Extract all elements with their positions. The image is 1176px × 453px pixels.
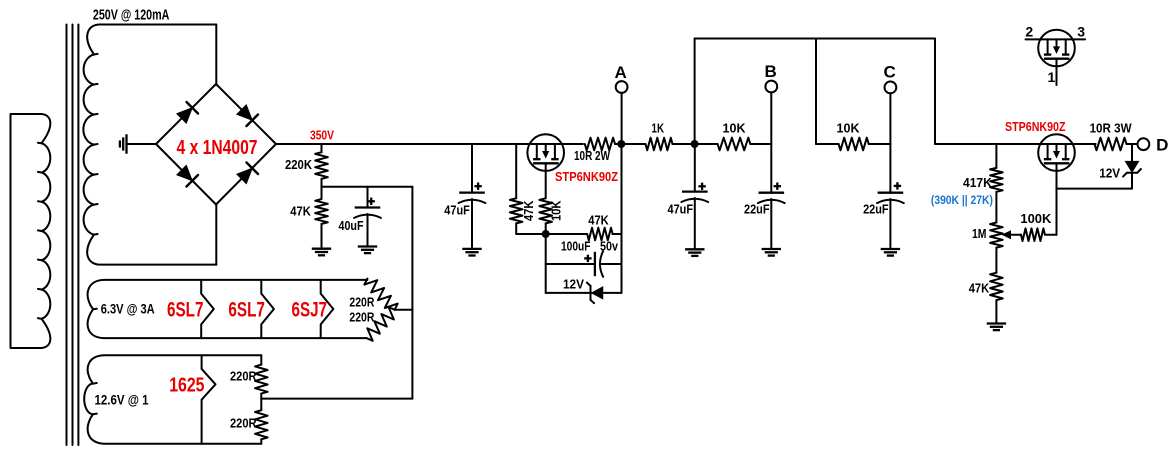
ground (input 47uF) <box>462 248 481 250</box>
terminal B <box>765 81 777 93</box>
resistor 220R lower (6.3V humdinger) <box>367 307 395 341</box>
transformer T1 core <box>66 25 68 446</box>
svg-text:417K: 417K <box>963 176 992 190</box>
resistor 10K (gate) <box>545 163 547 198</box>
wiper arrow <box>1003 231 1011 238</box>
capacitor 100uF 50v <box>594 252 596 276</box>
wire 12.6V center tap <box>261 398 412 400</box>
terminal A <box>616 81 628 93</box>
resistor 1K <box>646 138 673 151</box>
wire 10K to B <box>750 143 771 145</box>
svg-text:22uF: 22uF <box>863 203 889 217</box>
svg-text:220K: 220K <box>285 158 312 172</box>
svg-text:(390K || 27K): (390K || 27K) <box>931 193 993 207</box>
svg-text:6SL7: 6SL7 <box>167 298 204 321</box>
diode D2 (bridge top-right) <box>237 105 252 120</box>
ground (right divider) <box>987 322 1006 324</box>
svg-text:220R: 220R <box>230 369 257 383</box>
svg-text:1: 1 <box>1048 69 1056 85</box>
transformer T1 secondary 12.6V winding bus <box>84 355 261 444</box>
wire 10K to C <box>869 143 891 145</box>
resistor 10K (B feed) <box>718 138 751 151</box>
svg-text:220R: 220R <box>349 296 374 310</box>
svg-text:6SJ7: 6SJ7 <box>292 298 328 321</box>
svg-text:12V: 12V <box>1099 167 1121 181</box>
junction dot node after 1K <box>691 140 699 148</box>
diode D1 (bridge top-left) <box>177 108 192 123</box>
svg-text:C: C <box>883 63 895 82</box>
transformer T1 secondary 250V winding <box>83 25 216 265</box>
wire 350V rail <box>276 143 583 145</box>
tube 6SL7 #1 divider <box>201 280 214 338</box>
svg-text:D: D <box>1156 136 1168 155</box>
svg-text:10K: 10K <box>723 122 746 136</box>
svg-text:10K: 10K <box>550 201 564 222</box>
resistor 10R 3W <box>1095 138 1127 151</box>
tube 1625 divider <box>202 355 216 444</box>
wire 1K to node <box>673 143 718 145</box>
zener diode D6 12V (gate protection) <box>1131 144 1133 161</box>
resistor 47K (divider) <box>315 199 328 224</box>
diode D4 (bridge bottom-right) <box>237 168 252 183</box>
wire gate-zener branch <box>1057 188 1133 190</box>
svg-text:B: B <box>765 62 777 81</box>
svg-text:47uF: 47uF <box>444 203 470 217</box>
svg-text:47K: 47K <box>290 205 311 219</box>
resistor 220R lower (12.6V) <box>255 410 268 439</box>
wire gate network bottom <box>516 233 587 235</box>
svg-text:250V @ 120mA: 250V @ 120mA <box>93 8 170 24</box>
wire secondary top to bridge AC+ <box>215 25 217 86</box>
capacitor 47uF (input) <box>471 144 473 193</box>
svg-text:100K: 100K <box>1020 212 1051 226</box>
transistor Q1 STP6NK90Z pass MOSFET <box>527 134 564 171</box>
wire gate node down <box>545 234 547 293</box>
svg-text:220R: 220R <box>230 416 257 430</box>
wire node up to top rail <box>694 39 696 145</box>
svg-text:STP6NK90Z: STP6NK90Z <box>555 170 618 184</box>
svg-text:12V: 12V <box>563 277 585 291</box>
svg-text:1625: 1625 <box>169 374 204 396</box>
wire secondary bottom to bridge AC- <box>215 204 217 265</box>
svg-text:220R: 220R <box>349 311 374 325</box>
zener diode D5 12V (gate reference) <box>592 287 603 299</box>
terminal D <box>1138 138 1150 150</box>
resistor 10K (C feed) <box>839 138 869 151</box>
svg-text:10R 2W: 10R 2W <box>574 149 610 163</box>
junction dot gate node <box>542 230 550 238</box>
wire C branch drop <box>815 39 817 145</box>
svg-text:STP6NK90Z: STP6NK90Z <box>1005 120 1066 134</box>
diode D3 (bridge bottom-left) <box>177 165 192 180</box>
svg-text:6SL7: 6SL7 <box>228 298 265 321</box>
wire divider node <box>322 186 413 188</box>
wire zener row <box>546 292 585 294</box>
svg-text:350V: 350V <box>310 127 334 142</box>
svg-text:47uF: 47uF <box>668 203 694 217</box>
plus sign 47uF node <box>698 185 705 187</box>
wire bridge negative to ground <box>127 143 156 145</box>
tube 6SL7 #2 divider <box>261 280 274 338</box>
svg-text:10K: 10K <box>837 122 860 136</box>
wire gate down (right) <box>1056 163 1058 234</box>
ground (22uF B) <box>762 248 781 250</box>
resistor 47K (lower right) <box>995 248 997 273</box>
resistor 220R upper (6.3V humdinger) <box>364 279 397 310</box>
ground (40uF) <box>358 245 377 247</box>
svg-text:2: 2 <box>1025 24 1033 40</box>
resistor 100K <box>1021 228 1045 241</box>
wire 100uF left <box>545 263 547 265</box>
svg-text:22uF: 22uF <box>744 203 770 217</box>
tube 6SJ7 divider <box>321 280 334 338</box>
svg-text:47K: 47K <box>522 201 536 222</box>
plus sign 100uF <box>584 257 591 259</box>
node A junction dot <box>617 140 625 148</box>
svg-text:40uF: 40uF <box>339 219 364 233</box>
svg-text:50v: 50v <box>600 240 618 254</box>
svg-text:100uF: 100uF <box>561 240 591 254</box>
capacitor 47uF (node A filter) <box>694 144 696 192</box>
resistor 47K (gate divider upper) <box>515 144 517 198</box>
plus sign 22uF C <box>894 185 901 187</box>
resistor 10R 2W <box>585 138 615 151</box>
resistor 220K <box>321 144 323 152</box>
terminal C <box>885 82 897 94</box>
svg-text:A: A <box>615 63 627 82</box>
svg-text:1K: 1K <box>652 122 665 136</box>
wire output column <box>621 144 623 293</box>
svg-text:4 x 1N4007: 4 x 1N4007 <box>177 136 258 159</box>
transformer T1 primary winding <box>11 114 51 348</box>
svg-text:3: 3 <box>1077 24 1085 40</box>
wire top rail drop <box>934 39 936 145</box>
resistor 47K (gate feedback) <box>587 228 612 241</box>
ground (bridge) <box>125 134 127 153</box>
wire heater DC reference rail <box>411 187 413 399</box>
svg-text:10R 3W: 10R 3W <box>1090 122 1132 136</box>
ground (divider 47K) <box>312 248 331 250</box>
transistor pinout reference MOSFET (floating) <box>1038 30 1075 67</box>
wire bridge diamond <box>156 84 276 205</box>
svg-text:6.3V @ 3A: 6.3V @ 3A <box>101 301 155 317</box>
svg-text:12.6V @ 1: 12.6V @ 1 <box>95 392 149 408</box>
ground (47uF node) <box>685 248 704 250</box>
wire to D <box>1127 143 1138 145</box>
plus sign 22uF B <box>774 185 781 187</box>
capacitor 40uF <box>367 187 369 208</box>
resistor 417K <box>995 144 997 168</box>
ground (22uF C) <box>881 248 900 250</box>
wire right rail <box>935 143 1096 145</box>
svg-text:1M: 1M <box>972 227 987 241</box>
capacitor 22uF (C) <box>878 192 904 194</box>
plus sign 47uF input <box>474 185 481 187</box>
capacitor 22uF (B) <box>759 192 785 194</box>
svg-text:47K: 47K <box>969 282 990 296</box>
transformer T1 secondary 6.3V winding bus <box>88 280 368 338</box>
resistor 220R upper (12.6V) <box>260 355 262 364</box>
wire top rail <box>695 38 935 40</box>
wire humdinger tap <box>395 309 413 311</box>
svg-text:47K: 47K <box>588 214 609 228</box>
wire 47K to output column <box>613 233 622 235</box>
wire 100K to gate <box>1045 234 1057 236</box>
plus sign 40uF <box>368 200 375 202</box>
wire 10R to node A <box>615 143 646 145</box>
transistor Q2 STP6NK90Z pass MOSFET (right) <box>1038 134 1075 171</box>
potentiometer 1M <box>990 223 1003 248</box>
